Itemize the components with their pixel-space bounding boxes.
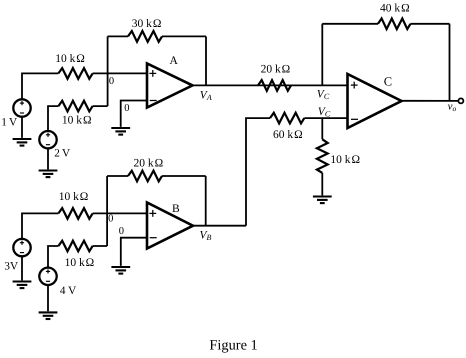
svg-text:0: 0 [108, 213, 113, 224]
svg-text:C: C [384, 75, 392, 89]
svg-text:30 k Ω: 30 k Ω [132, 18, 162, 30]
svg-text:3V: 3V [4, 260, 18, 272]
svg-text:10 k Ω: 10 k Ω [59, 191, 89, 203]
svg-text:VC: VC [318, 106, 331, 119]
svg-text:10 k Ω: 10 k Ω [65, 257, 95, 269]
svg-text:20 k Ω: 20 k Ω [261, 64, 291, 76]
svg-text:Figure 1: Figure 1 [209, 338, 257, 354]
svg-text:B: B [172, 203, 180, 215]
svg-text:20 k Ω: 20 k Ω [134, 157, 164, 169]
svg-text:A: A [170, 55, 179, 67]
svg-text:1 V: 1 V [1, 117, 17, 129]
svg-text:4 V: 4 V [60, 285, 76, 297]
svg-text:60 k Ω: 60 k Ω [273, 129, 303, 141]
svg-text:VB: VB [200, 229, 212, 242]
svg-text:10 k Ω: 10 k Ω [330, 154, 360, 166]
svg-text:VA: VA [200, 90, 212, 103]
svg-text:VC: VC [317, 88, 330, 101]
svg-text:40 k Ω: 40 k Ω [380, 3, 410, 15]
svg-text:10 k Ω: 10 k Ω [55, 53, 85, 65]
svg-text:0: 0 [124, 103, 129, 114]
svg-text:0: 0 [119, 226, 124, 237]
svg-text:vo: vo [448, 101, 457, 114]
svg-text:0: 0 [109, 76, 114, 87]
svg-text:2 V: 2 V [54, 148, 70, 160]
svg-text:10 k Ω: 10 k Ω [62, 115, 92, 127]
